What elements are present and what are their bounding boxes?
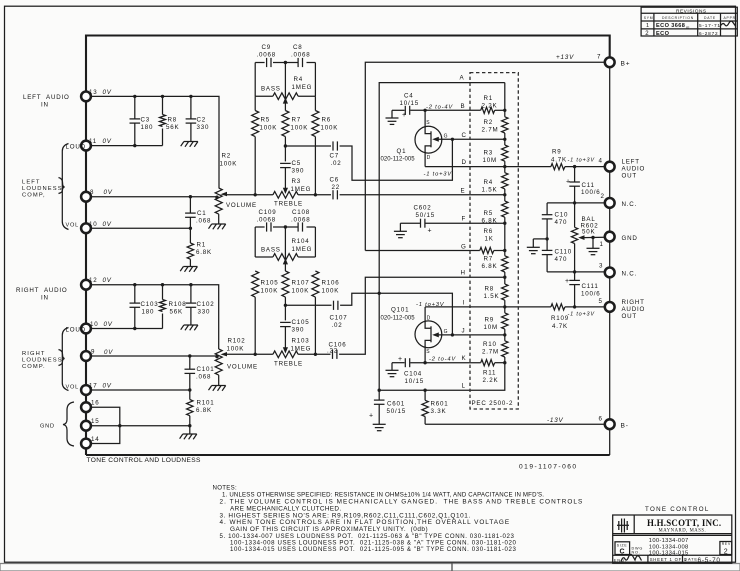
capacitor C109 .0068 <box>267 222 271 231</box>
svg-text:C: C <box>462 132 467 139</box>
ground at C601 <box>373 424 386 430</box>
svg-text:C5: C5 <box>292 160 302 167</box>
svg-text:COMP,: COMP, <box>22 193 46 199</box>
wire row 11 <box>91 145 163 147</box>
svg-text:6: 6 <box>599 416 603 423</box>
wire row G from +13V drop <box>365 250 480 252</box>
svg-text:100-1334-015 USES LOUDNESS POT: 100-1334-015 USES LOUDNESS POT. 021-1125… <box>230 546 516 553</box>
svg-text:DATE: DATE <box>704 16 716 20</box>
capacitor C7 .02 with tap <box>284 144 287 147</box>
terminal 15 <box>81 421 91 431</box>
svg-text:H.H.SCOTT, INC.: H.H.SCOTT, INC. <box>647 518 721 528</box>
wire row 13 <box>91 96 219 188</box>
svg-text:10/15: 10/15 <box>400 100 419 107</box>
capacitor C11 100/6 <box>574 167 576 182</box>
terminal 11 LOUD <box>81 141 91 151</box>
revisions table <box>641 7 737 36</box>
svg-text:50K: 50K <box>582 229 595 236</box>
svg-text:6.8K: 6.8K <box>482 263 498 270</box>
svg-text:G: G <box>444 329 449 335</box>
svg-text:17: 17 <box>89 383 97 390</box>
svg-text:1MEG: 1MEG <box>292 246 313 253</box>
capacitor C106 .22 <box>333 350 337 359</box>
svg-text:VOLUME: VOLUME <box>226 202 257 209</box>
svg-text:020-112-005: 020-112-005 <box>381 157 416 163</box>
svg-text:R2: R2 <box>484 119 494 126</box>
svg-text:RIGHT AUDIO: RIGHT AUDIO <box>16 287 68 294</box>
capacitor C9 .0068 <box>267 58 271 67</box>
gate node C <box>451 138 454 141</box>
capacitor C3 180 <box>134 96 136 118</box>
svg-text:6-2872: 6-2872 <box>699 31 718 36</box>
resistor R5 6.8K <box>502 201 508 217</box>
svg-text:15: 15 <box>91 418 99 425</box>
svg-text:4: 4 <box>599 158 603 165</box>
svg-text:9: 9 <box>91 349 95 356</box>
wire row 9 to volume <box>91 355 217 357</box>
svg-text:1MEG: 1MEG <box>291 346 312 353</box>
svg-text:50/15: 50/15 <box>416 212 435 219</box>
wire A-L tie line <box>379 83 505 391</box>
svg-text:R107: R107 <box>292 280 310 287</box>
svg-text:TONE CONTROL: TONE CONTROL <box>645 506 710 513</box>
ground at C602 <box>399 223 401 231</box>
svg-text:R3: R3 <box>292 178 302 185</box>
resistor R3 10M <box>502 145 508 161</box>
svg-text:LOUD: LOUD <box>66 144 86 151</box>
wire row 8 to volume <box>91 196 217 198</box>
svg-text:D: D <box>427 315 431 321</box>
wire row 12 <box>91 285 219 349</box>
svg-text:+13V: +13V <box>556 54 574 61</box>
wire row L <box>379 363 505 391</box>
resistor R7 6.8K <box>502 256 508 272</box>
wire C107 feed to gate <box>340 293 452 335</box>
terminal 1 GND <box>605 232 615 242</box>
capacitor C110 470 <box>546 239 548 251</box>
svg-text:0V: 0V <box>104 349 113 356</box>
svg-text:1.5K: 1.5K <box>484 293 500 300</box>
svg-text:5-17-71: 5-17-71 <box>699 23 721 28</box>
svg-text:+: + <box>566 178 571 185</box>
resistor R9 10M PEC <box>502 313 508 329</box>
svg-text:10/15: 10/15 <box>405 378 424 385</box>
svg-text:SYM: SYM <box>644 16 654 20</box>
svg-text:R4: R4 <box>484 179 494 186</box>
wire row K <box>392 362 405 364</box>
svg-text:PEC 2500-2: PEC 2500-2 <box>472 400 514 407</box>
svg-text:DATE: DATE <box>684 557 698 562</box>
svg-text:100K: 100K <box>322 288 340 295</box>
terminal 16 <box>81 402 91 412</box>
ground at C4 <box>391 110 393 118</box>
svg-text:11: 11 <box>89 138 97 145</box>
svg-text:R1: R1 <box>197 242 207 249</box>
svg-text:56K: 56K <box>166 124 179 131</box>
svg-text:R9: R9 <box>552 149 562 156</box>
capacitor C5 390 <box>280 163 291 167</box>
potentiometer R103 1MEG TREBLE <box>283 347 288 353</box>
svg-text:L: L <box>462 383 466 390</box>
svg-text:R4: R4 <box>294 76 304 83</box>
resistor R601 3.3K <box>424 390 426 400</box>
svg-text:C7: C7 <box>330 153 340 160</box>
resistor R1 6.8K <box>189 228 191 243</box>
svg-text:RIGHT: RIGHT <box>22 351 46 357</box>
svg-text:C102: C102 <box>197 301 215 308</box>
resistor R8 56K <box>162 96 164 114</box>
svg-text:I: I <box>463 299 466 306</box>
svg-text:180: 180 <box>142 309 155 316</box>
wire row E from C6 to PEC <box>340 194 505 196</box>
svg-text:0V: 0V <box>103 277 112 284</box>
svg-text:C110: C110 <box>555 249 573 256</box>
svg-text:C111: C111 <box>582 283 599 290</box>
ground under R101 <box>180 434 197 439</box>
svg-text:100K: 100K <box>292 288 310 295</box>
terminal 7 B+ <box>605 57 615 67</box>
resistor R10 2.7M <box>502 341 508 357</box>
svg-text:100K: 100K <box>220 161 238 168</box>
svg-text:COMP.: COMP. <box>22 364 46 370</box>
svg-text:7: 7 <box>597 53 601 60</box>
svg-text:D: D <box>462 159 467 166</box>
capacitor C107 .02 with tap <box>284 304 287 307</box>
svg-text:ECO: ECO <box>656 31 670 37</box>
svg-text:12: 12 <box>89 277 97 284</box>
svg-text:0V: 0V <box>103 138 112 145</box>
svg-text:2: 2 <box>645 31 649 37</box>
svg-text:50/15: 50/15 <box>387 408 406 415</box>
resistor R8 1.5K <box>502 284 508 300</box>
svg-text:100/6: 100/6 <box>581 291 600 298</box>
terminal 10 LOUD right <box>81 324 91 334</box>
svg-text:16: 16 <box>91 400 99 407</box>
svg-text:100K: 100K <box>261 288 279 295</box>
capacitor C104 10/15 <box>404 358 406 367</box>
svg-text:1MEG: 1MEG <box>292 84 313 91</box>
svg-text:C9: C9 <box>262 44 272 51</box>
capacitor C103 180 <box>134 285 136 303</box>
svg-text:R106: R106 <box>322 280 340 287</box>
svg-text:IN: IN <box>41 295 49 302</box>
terminal 4 LEFT AUDIO OUT <box>605 162 615 172</box>
svg-text:VOL: VOL <box>66 223 80 229</box>
svg-text:H: H <box>461 270 466 277</box>
svg-text:470: 470 <box>555 256 568 263</box>
svg-text:.0068: .0068 <box>291 52 310 59</box>
svg-text:NO.: NO. <box>632 550 641 554</box>
ground under C102 <box>181 325 198 330</box>
capacitor C111 100/6 <box>574 272 576 281</box>
terminal 2 NC <box>605 198 615 208</box>
svg-text:D: D <box>427 155 431 161</box>
potentiometer R104 1MEG BASS <box>255 256 273 258</box>
capacitor C1 .068 <box>189 197 191 213</box>
svg-text:C3: C3 <box>141 117 151 124</box>
svg-text:R109: R109 <box>551 315 569 322</box>
balance wiper to GND terminal <box>578 235 584 240</box>
svg-text:C1: C1 <box>197 210 207 217</box>
svg-text:R3: R3 <box>484 150 494 157</box>
svg-text:0V: 0V <box>103 221 112 228</box>
svg-text:019-1107-060: 019-1107-060 <box>519 463 578 470</box>
wire -13V row to B- <box>425 423 605 425</box>
svg-text:R6: R6 <box>322 117 332 124</box>
svg-text:C6: C6 <box>330 177 340 184</box>
ground under R2 pot <box>209 224 226 229</box>
resistor R109 4.7K <box>551 304 565 310</box>
svg-text:LOUDNESS: LOUDNESS <box>22 358 63 364</box>
svg-text:R5: R5 <box>261 117 271 124</box>
svg-text:LEFT: LEFT <box>622 159 640 166</box>
svg-text:.02: .02 <box>331 160 342 167</box>
svg-text:R102: R102 <box>228 338 246 345</box>
svg-text:N.C.: N.C. <box>622 201 638 208</box>
svg-text:390: 390 <box>292 168 305 175</box>
svg-text:DESCRIPTION: DESCRIPTION <box>662 16 694 20</box>
svg-text:+: + <box>402 112 407 119</box>
svg-text:B+: B+ <box>621 60 631 67</box>
svg-text:R101: R101 <box>197 400 215 407</box>
svg-text:100K: 100K <box>227 346 245 353</box>
svg-text:REV: REV <box>722 542 731 546</box>
svg-text:0V: 0V <box>104 321 113 328</box>
potentiometer R102 100K VOLUME <box>215 349 222 375</box>
potentiometer R4 1MEG BASS <box>255 95 273 97</box>
resistor R106 100K <box>312 271 319 297</box>
svg-text:GND: GND <box>622 235 638 242</box>
terminal 9 right loudness comp <box>81 351 91 361</box>
svg-text:2.7M: 2.7M <box>482 349 499 356</box>
terminal 14 <box>81 439 91 449</box>
svg-text:LOUDNESS: LOUDNESS <box>22 186 63 192</box>
capacitor C10 470 <box>546 203 548 215</box>
svg-text:Q101: Q101 <box>391 307 409 314</box>
svg-text:1.5K: 1.5K <box>482 187 498 194</box>
svg-text:2.2K: 2.2K <box>482 103 498 110</box>
wire NC2 row <box>547 202 605 204</box>
svg-text:APPR: APPR <box>724 16 736 20</box>
svg-text:180: 180 <box>141 124 154 131</box>
terminal 6 B- <box>605 419 615 429</box>
transistor Q1 020-112-005 <box>415 126 442 153</box>
svg-text:-1 to+3V: -1 to+3V <box>568 157 596 163</box>
svg-text:N.C.: N.C. <box>622 271 638 278</box>
svg-text:2.2K: 2.2K <box>483 377 499 384</box>
svg-text:3.3K: 3.3K <box>431 408 447 415</box>
svg-text:2: 2 <box>724 549 729 556</box>
terminal 17 VOL right <box>81 385 91 395</box>
svg-text:470: 470 <box>555 219 568 226</box>
svg-text:C4: C4 <box>404 93 414 100</box>
svg-text:R105: R105 <box>261 280 279 287</box>
PEC 2500-2 module dashed box <box>470 73 518 409</box>
wire terminals 16 15 14 tie <box>91 407 120 443</box>
capacitor C2 330 <box>190 96 192 118</box>
svg-text:S: S <box>426 120 430 126</box>
resistor R6 1K <box>480 247 494 253</box>
potentiometer R2 100K VOLUME <box>215 188 222 214</box>
svg-text:10: 10 <box>90 321 98 328</box>
wire row 17 VOL <box>91 389 190 391</box>
svg-text:+: + <box>428 228 433 235</box>
wire row J <box>452 334 504 336</box>
transistor Q101 020-112-005 <box>415 321 442 348</box>
svg-text:10M: 10M <box>483 157 497 164</box>
capacitor C4 10/15 <box>404 106 406 115</box>
svg-text:0V: 0V <box>103 383 112 390</box>
svg-text:100/6: 100/6 <box>581 189 600 196</box>
svg-text:B-: B- <box>621 422 629 429</box>
svg-text:-1 to+3V: -1 to+3V <box>424 171 453 177</box>
resistor R1 2.2K <box>481 107 495 113</box>
svg-text:.0068: .0068 <box>257 217 276 224</box>
svg-text:100K: 100K <box>321 125 339 132</box>
svg-text:-2 to-4V: -2 to-4V <box>426 104 453 110</box>
svg-text:AUDIO: AUDIO <box>622 166 646 173</box>
svg-text:R10: R10 <box>483 341 497 348</box>
svg-text:13: 13 <box>89 89 97 96</box>
ground at C104 <box>391 363 393 371</box>
svg-text:0V: 0V <box>103 89 112 96</box>
resistor R4 1.5K <box>502 173 508 189</box>
svg-text:RIGHT: RIGHT <box>622 299 645 306</box>
svg-text:C11: C11 <box>582 182 595 189</box>
svg-text:+: + <box>398 356 403 363</box>
svg-text:6.8K: 6.8K <box>482 218 498 225</box>
svg-text:-2 to-4V: -2 to-4V <box>429 357 456 363</box>
svg-text:14: 14 <box>91 436 99 443</box>
svg-text:S: S <box>426 349 430 355</box>
ground tap between C10 C110 <box>545 237 548 240</box>
main circuit boundary box <box>86 36 610 456</box>
ground under R1 <box>180 267 197 272</box>
wire C106 feed to row H <box>339 277 505 354</box>
left loudness bracket <box>62 144 68 230</box>
capacitor C101 .068 <box>189 356 191 369</box>
Scott logo <box>617 519 629 533</box>
svg-text:C10: C10 <box>555 212 569 219</box>
svg-text:R6: R6 <box>484 228 494 235</box>
wire row 10 right loud <box>91 328 163 330</box>
svg-text:AUDIO: AUDIO <box>622 306 646 313</box>
svg-text:OUT: OUT <box>622 313 637 320</box>
svg-text:C109: C109 <box>259 209 277 216</box>
svg-text:100-1334-008: 100-1334-008 <box>649 544 689 550</box>
svg-text:ECO 3668: ECO 3668 <box>656 23 685 29</box>
potentiometer BAL R602 50K <box>574 203 576 227</box>
svg-text:C108: C108 <box>292 209 310 216</box>
svg-text:C601: C601 <box>387 401 405 408</box>
svg-text:5: 5 <box>599 298 603 305</box>
terminal 12 RIGHT AUDIO IN <box>81 280 91 290</box>
svg-text:VOLUME: VOLUME <box>227 364 258 371</box>
wire left tone top rail <box>255 62 264 64</box>
svg-text:BASS: BASS <box>261 247 281 254</box>
wire left rail risers <box>254 63 256 97</box>
resistor R6 100K <box>314 96 316 110</box>
capacitor C108 .0068 <box>298 222 302 231</box>
svg-text:R108: R108 <box>169 301 187 308</box>
svg-text:100-1334-015: 100-1334-015 <box>649 551 689 557</box>
svg-text:6-5-70: 6-5-70 <box>698 557 721 564</box>
resistor R107 100K <box>282 271 289 297</box>
svg-text:OUT: OUT <box>622 173 637 180</box>
gate node J <box>451 333 454 336</box>
svg-text:3: 3 <box>599 263 603 270</box>
svg-text:1: 1 <box>646 23 650 29</box>
svg-text:6.8K: 6.8K <box>196 407 212 414</box>
svg-text:R7: R7 <box>292 117 302 124</box>
svg-text:100-1334-007: 100-1334-007 <box>649 538 689 544</box>
svg-text:R9: R9 <box>485 317 495 324</box>
capacitor C105 390 <box>280 322 291 326</box>
svg-text:+: + <box>565 278 570 285</box>
svg-text:R601: R601 <box>431 401 449 408</box>
svg-text:10: 10 <box>89 221 97 228</box>
wire row B <box>392 109 405 111</box>
svg-text:2.7M: 2.7M <box>482 127 499 134</box>
svg-text:-13V: -13V <box>547 417 564 424</box>
resistor R101 6.8K <box>189 390 191 400</box>
svg-text:Q1: Q1 <box>397 148 407 155</box>
svg-text:R1: R1 <box>484 95 494 102</box>
svg-text:330: 330 <box>198 309 211 316</box>
svg-text:330: 330 <box>197 124 210 131</box>
notes block <box>213 485 584 553</box>
capacitor C601 50/15 <box>378 390 380 400</box>
capacitor C8 .0068 <box>298 58 302 67</box>
svg-text:MAYNARD, MASS.: MAYNARD, MASS. <box>659 528 707 533</box>
svg-text:LOUD: LOUD <box>66 327 86 334</box>
svg-text:R8: R8 <box>485 286 495 293</box>
svg-text:4.7K: 4.7K <box>551 157 567 164</box>
svg-text:1. UNLESS OTHERWISE SPECIFIED:: 1. UNLESS OTHERWISE SPECIFIED: RESISTANC… <box>222 491 544 498</box>
resistor R5 100K <box>254 96 256 110</box>
svg-text:+: + <box>369 413 374 420</box>
svg-text:GND: GND <box>40 424 55 430</box>
wire row D drain out <box>425 166 551 168</box>
svg-text:100K: 100K <box>260 125 278 132</box>
svg-text:B: B <box>461 103 466 110</box>
resistor R108 56K <box>162 285 164 300</box>
svg-text:020-112-005: 020-112-005 <box>381 316 416 322</box>
wire row 10 VOL <box>91 227 190 229</box>
svg-text:R103: R103 <box>292 338 310 345</box>
right loudness bracket <box>62 328 68 391</box>
svg-text:.0068: .0068 <box>291 217 310 224</box>
svg-text:R7: R7 <box>484 256 494 263</box>
svg-text:0V: 0V <box>104 189 113 196</box>
svg-text:C602: C602 <box>414 205 432 212</box>
svg-text:1: 1 <box>600 241 604 248</box>
resistor R105 100K <box>252 271 259 297</box>
svg-text:E: E <box>461 188 466 195</box>
terminal 10 VOL left <box>81 223 91 233</box>
svg-text:.068: .068 <box>196 374 211 381</box>
svg-text:C103: C103 <box>141 301 159 308</box>
svg-text:m: m <box>686 25 690 30</box>
svg-text:R104: R104 <box>292 238 310 245</box>
ground under C2 <box>181 142 198 147</box>
svg-text:R11: R11 <box>483 370 496 377</box>
wire row C <box>452 138 504 140</box>
ground under R102 pot <box>209 386 226 391</box>
svg-text:REVISIONS: REVISIONS <box>676 8 707 14</box>
svg-text:1MEG: 1MEG <box>291 186 312 193</box>
svg-text:TREBLE: TREBLE <box>274 201 303 208</box>
